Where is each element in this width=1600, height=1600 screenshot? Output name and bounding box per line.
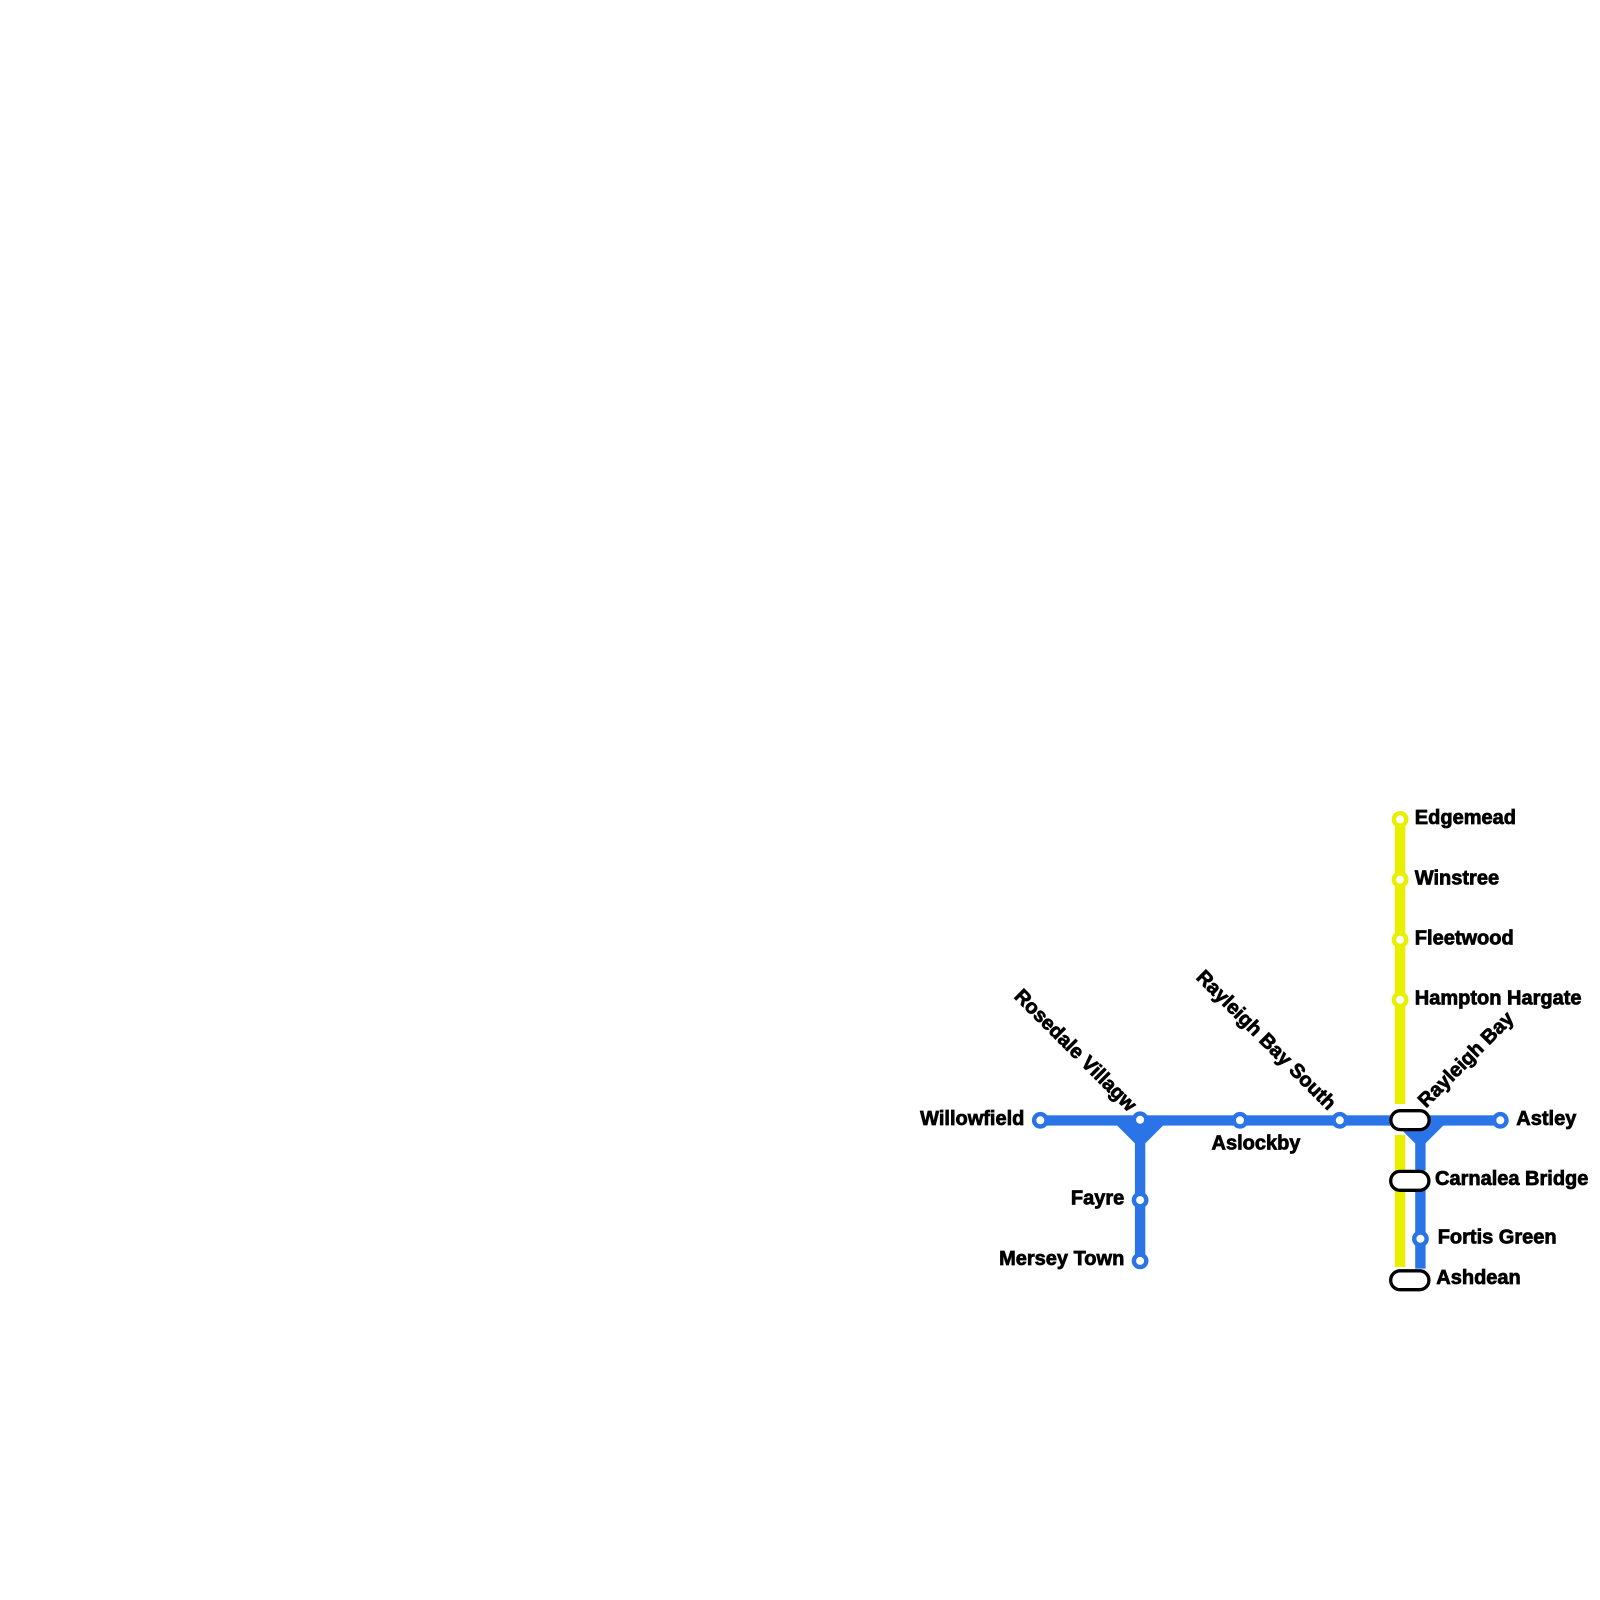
blue branch line Rosedale Villagw to Mersey Town <box>1135 1128 1145 1261</box>
station Mersey Town terminus <box>1134 1255 1146 1267</box>
svg-text:Fayre: Fayre <box>1071 1188 1124 1210</box>
station Rosedale Villagw junction dot <box>1134 1114 1146 1126</box>
svg-text:Fortis Green: Fortis Green <box>1438 1226 1557 1248</box>
svg-text:Ashdean: Ashdean <box>1436 1267 1520 1289</box>
svg-text:Willowfield: Willowfield <box>920 1108 1024 1130</box>
svg-text:Edgemead: Edgemead <box>1415 807 1516 829</box>
svg-text:Winstree: Winstree <box>1415 867 1499 889</box>
station Rayleigh Bay South <box>1334 1114 1346 1126</box>
station Aslockby <box>1234 1114 1246 1126</box>
blue branch line Rayleigh Bay to Carnalea Bridge <box>1415 1128 1425 1171</box>
interchange Ashdean terminus <box>1391 1271 1429 1290</box>
station Fortis Green <box>1414 1233 1426 1245</box>
interchange Rayleigh Bay <box>1391 1111 1429 1130</box>
yellow line segment Carnalea Bridge to Ashdean <box>1395 1191 1406 1268</box>
blue branch line Carnalea Bridge to Ashdean <box>1415 1191 1425 1269</box>
svg-text:Aslockby: Aslockby <box>1212 1132 1302 1154</box>
station Astley <box>1494 1114 1506 1126</box>
yellow line segment Edgemead to Rayleigh Bay <box>1395 819 1406 1104</box>
yellow line segment Rayleigh Bay to Carnalea Bridge <box>1395 1135 1406 1171</box>
svg-text:Mersey Town: Mersey Town <box>999 1248 1124 1270</box>
blue branch junction wye at Rosedale Villagw <box>1117 1125 1164 1143</box>
station Fayre <box>1134 1194 1146 1206</box>
blue branch junction wye at Rayleigh Bay <box>1397 1125 1444 1143</box>
station Winstree <box>1394 873 1406 885</box>
svg-text:Hampton Hargate: Hampton Hargate <box>1415 988 1582 1010</box>
interchange Carnalea Bridge <box>1391 1171 1429 1190</box>
svg-text:Carnalea Bridge: Carnalea Bridge <box>1435 1168 1588 1190</box>
station Hampton Hargate <box>1394 994 1406 1006</box>
station Edgemead <box>1394 813 1406 825</box>
svg-text:Fleetwood: Fleetwood <box>1415 927 1514 949</box>
svg-text:Astley: Astley <box>1516 1108 1577 1130</box>
station Fleetwood <box>1394 934 1406 946</box>
station Willowfield <box>1034 1114 1046 1126</box>
blue line Willowfield to Astley <box>1040 1115 1500 1125</box>
